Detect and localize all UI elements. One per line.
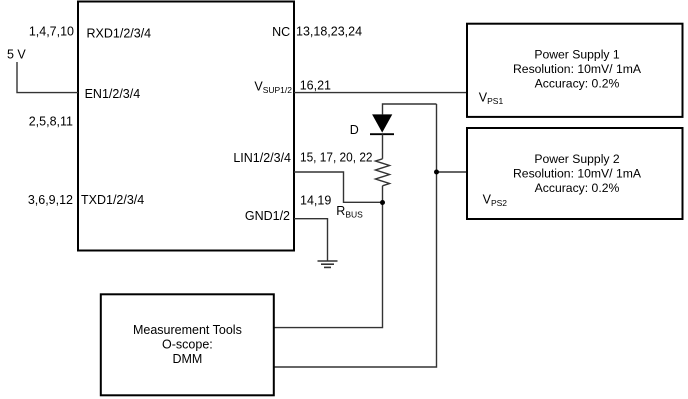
wire GND to ground [294, 219, 328, 261]
svg-text:Power Supply 1: Power Supply 1 [534, 48, 620, 62]
svg-text:16,21: 16,21 [300, 78, 331, 92]
svg-text:Resolution: 10mV/ 1mA: Resolution: 10mV/ 1mA [513, 166, 642, 180]
wire vertical bus to Measurement Tools [274, 104, 437, 367]
svg-text:14,19: 14,19 [300, 194, 331, 208]
svg-text:5 V: 5 V [7, 47, 26, 61]
resistor RBUS [376, 159, 390, 186]
svg-text:15, 17, 20, 22: 15, 17, 20, 22 [300, 151, 373, 165]
svg-text:13,18,23,24: 13,18,23,24 [296, 25, 362, 39]
svg-text:GND1/2: GND1/2 [245, 209, 290, 223]
svg-text:RXD1/2/3/4: RXD1/2/3/4 [87, 26, 152, 40]
svg-text:Accuracy: 0.2%: Accuracy: 0.2% [535, 76, 620, 90]
wire LIN to node A [294, 172, 383, 202]
node B junction dot [434, 170, 439, 175]
wire resistor bottom to node A to Measurement Tools [274, 186, 383, 328]
svg-text:1,4,7,10: 1,4,7,10 [29, 25, 74, 39]
node A junction dot [380, 200, 385, 205]
wire 5V to EN1/2/3/4 [17, 62, 78, 93]
svg-text:DMM: DMM [172, 352, 202, 366]
svg-text:TXD1/2/3/4: TXD1/2/3/4 [81, 193, 144, 207]
wire VSUP to Power Supply 1 [294, 92, 467, 94]
svg-text:LIN1/2/3/4: LIN1/2/3/4 [233, 151, 291, 165]
ground [318, 261, 338, 267]
Measurement Tools text [133, 323, 242, 366]
svg-text:D: D [350, 123, 359, 137]
wire node B to Power Supply 2 [437, 171, 468, 173]
svg-text:Power Supply 2: Power Supply 2 [534, 152, 620, 166]
svg-text:Accuracy: 0.2%: Accuracy: 0.2% [535, 181, 620, 195]
wire diode anode to vertical bus [383, 104, 437, 114]
svg-text:Resolution: 10mV/ 1mA: Resolution: 10mV/ 1mA [513, 62, 642, 76]
svg-text:EN1/2/3/4: EN1/2/3/4 [85, 87, 141, 101]
Measurement Tools box [101, 294, 274, 395]
svg-text:O-scope:: O-scope: [162, 338, 213, 352]
svg-text:NC: NC [272, 25, 290, 39]
Power Supply 1 text [513, 48, 642, 91]
Power Supply 2 box [467, 128, 683, 219]
Power Supply 1 box [467, 24, 683, 117]
diode D [370, 114, 394, 158]
IC U1 LIN transceiver box [78, 2, 294, 251]
svg-text:3,6,9,12: 3,6,9,12 [28, 193, 73, 207]
Power Supply 2 text [513, 152, 642, 195]
svg-text:Measurement Tools: Measurement Tools [133, 323, 242, 337]
svg-text:2,5,8,11: 2,5,8,11 [29, 115, 73, 129]
